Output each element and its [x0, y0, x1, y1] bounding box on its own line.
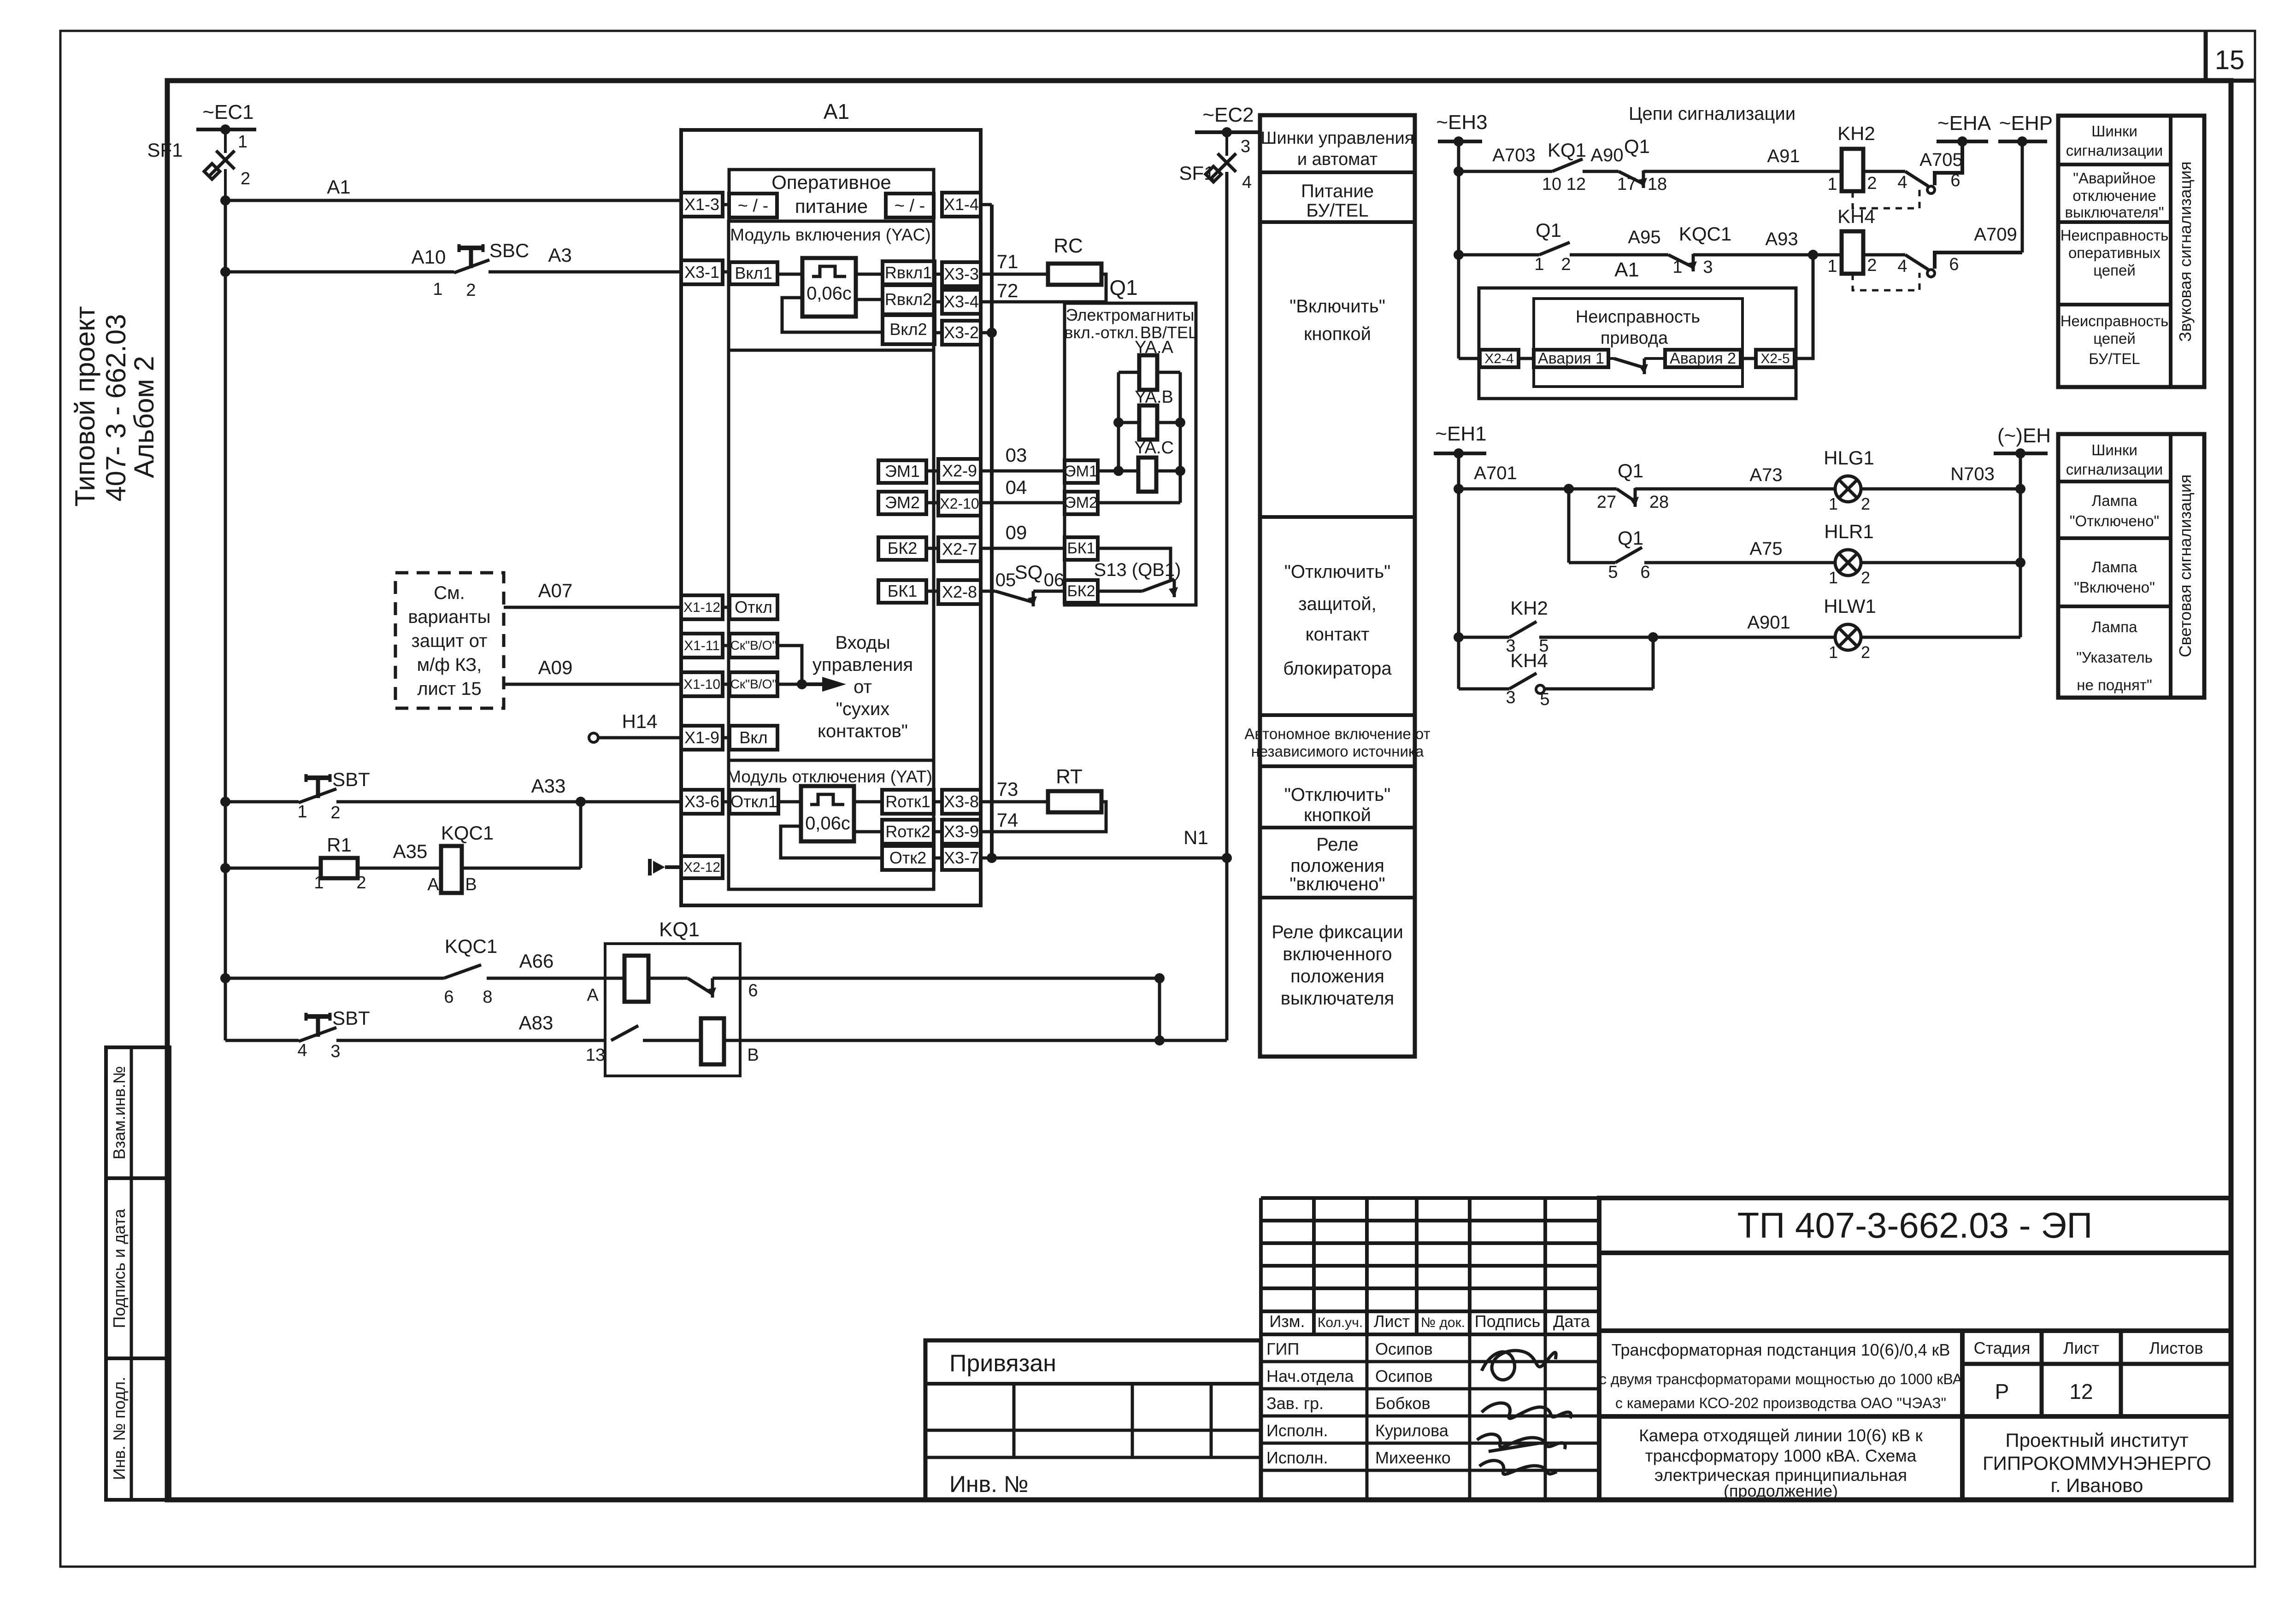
contact Q1 (pins 5,6) [1608, 527, 1835, 582]
svg-text:Шинки управления: Шинки управления [1261, 129, 1414, 148]
svg-text:блокиратора: блокиратора [1283, 658, 1392, 679]
svg-text:БУ/TEL: БУ/TEL [2089, 350, 2140, 367]
output box Rвкл2 [856, 285, 935, 314]
svg-text:~EHA: ~EHA [1937, 112, 1991, 135]
svg-text:13: 13 [586, 1045, 605, 1065]
svg-text:Электромагниты: Электромагниты [1066, 305, 1195, 324]
svg-text:KQC1: KQC1 [445, 935, 497, 957]
legend Реле фиксации [1272, 922, 1403, 1009]
svg-text:Листов: Листов [2149, 1339, 2203, 1357]
signal box Авария 2 [1665, 350, 1741, 367]
svg-text:4: 4 [297, 1041, 307, 1060]
terminal X3-9 [934, 820, 981, 844]
svg-text:"Указатель: "Указатель [2076, 649, 2153, 666]
svg-text:X1-4: X1-4 [944, 195, 979, 214]
wire 09 [981, 522, 1065, 548]
svg-text:KQ1: KQ1 [1548, 139, 1586, 161]
svg-text:Нач.отдела: Нач.отдела [1266, 1367, 1354, 1386]
svg-text:H14: H14 [622, 711, 657, 732]
svg-text:0,06с: 0,06с [805, 813, 850, 834]
terminal X2-5 [1741, 255, 1813, 367]
svg-text:Откл: Откл [735, 598, 772, 617]
svg-text:~EH3: ~EH3 [1436, 111, 1487, 134]
wire 73 [981, 778, 1048, 802]
svg-text:X1-3: X1-3 [684, 195, 719, 214]
terminal X2-7 [938, 537, 981, 561]
wire A701 [1459, 463, 1617, 494]
svg-text:Изм.: Изм. [1269, 1312, 1305, 1331]
svg-text:Михеенко: Михеенко [1375, 1448, 1451, 1467]
svg-text:Ск"В/О": Ск"В/О" [730, 638, 777, 652]
title block signature grid [1261, 1334, 1599, 1500]
wire A66 [519, 950, 554, 972]
left supply rail [224, 200, 227, 1040]
svg-text:Инв. № подл.: Инв. № подл. [110, 1377, 129, 1480]
title block object description cell [1599, 1331, 1963, 1416]
svg-text:с двумя трансформаторами мощно: с двумя трансформаторами мощностью до 10… [1599, 1371, 1963, 1387]
audio signal legend table [2058, 116, 2204, 387]
pulse timer 0,06с (YAT) [778, 786, 854, 841]
svg-text:Вкл1: Вкл1 [735, 264, 772, 282]
Q1 side box БК1 [1065, 537, 1171, 580]
svg-text:A1: A1 [1614, 258, 1639, 281]
svg-text:27: 27 [1597, 493, 1616, 512]
svg-text:сигнализации: сигнализации [2066, 461, 2163, 478]
vertical return conductor EC2-N1 [1160, 172, 1227, 1040]
contact KQC1 (pins 1,3) [1668, 223, 1842, 277]
svg-text:1: 1 [314, 873, 324, 893]
svg-text:4: 4 [1242, 173, 1252, 192]
svg-text:2: 2 [1861, 568, 1870, 587]
contact Q1 (pins 1,2) [1534, 219, 1668, 274]
legend Шинки управления и автомат [1261, 129, 1414, 169]
svg-text:RC: RC [1054, 235, 1083, 257]
wire A1 [225, 176, 681, 200]
terminal X3-8 [934, 790, 981, 814]
svg-text:защит от: защит от [412, 631, 488, 651]
svg-text:X3-2: X3-2 [944, 323, 979, 342]
svg-text:Неисправность: Неисправность [2061, 227, 2169, 244]
terminal X3-6 [681, 790, 723, 814]
svg-text:"Включить": "Включить" [1289, 296, 1385, 317]
svg-text:SBC: SBC [489, 240, 529, 261]
svg-text:X1-9: X1-9 [684, 728, 719, 747]
svg-text:2: 2 [1561, 255, 1571, 274]
lamp return rail [2015, 453, 2025, 637]
svg-text:X2-12: X2-12 [683, 860, 720, 875]
svg-text:A: A [427, 875, 439, 894]
svg-text:трансформатору 1000 кВА. Схема: трансформатору 1000 кВА. Схема [1645, 1446, 1917, 1465]
svg-text:72: 72 [997, 280, 1018, 301]
svg-text:15: 15 [2215, 45, 2245, 75]
limit switch SQ (pins 05,06) [981, 561, 1065, 606]
svg-text:Лист: Лист [2063, 1339, 2099, 1357]
svg-text:"Включено": "Включено" [2074, 579, 2155, 596]
svg-text:ГИПРОКОММУНЭНЕРГО: ГИПРОКОММУНЭНЕРГО [1983, 1452, 2211, 1474]
svg-text:Отк2: Отк2 [889, 848, 926, 867]
terminal X1-9 [681, 726, 723, 750]
svg-text:04: 04 [1006, 476, 1027, 498]
wire A75 [1749, 539, 1782, 559]
svg-text:A35: A35 [393, 840, 428, 862]
wire A901 [1747, 612, 1790, 633]
terminal X2-9 [938, 459, 981, 483]
title block institute cell [1962, 1416, 2231, 1500]
internal box БК2 [878, 537, 938, 560]
svg-text:г. Иваново: г. Иваново [2051, 1474, 2143, 1496]
svg-text:2: 2 [356, 873, 366, 893]
terminal X1-4 [942, 193, 981, 217]
svg-text:2: 2 [1867, 256, 1877, 275]
svg-text:5: 5 [1540, 690, 1549, 709]
svg-text:A73: A73 [1749, 465, 1782, 485]
svg-text:28: 28 [1649, 493, 1669, 512]
terminal H14 [589, 711, 681, 742]
svg-text:X3-6: X3-6 [684, 792, 719, 811]
svg-text:2: 2 [1861, 494, 1870, 513]
svg-text:Q1: Q1 [1618, 460, 1643, 482]
svg-text:~ / -: ~ / - [895, 196, 925, 216]
svg-text:кнопкой: кнопкой [1304, 324, 1371, 344]
svg-text:оперативных: оперативных [2068, 244, 2161, 261]
terminal X3-1 [681, 260, 723, 284]
svg-text:5: 5 [1608, 563, 1618, 582]
svg-text:Ск"В/О": Ск"В/О" [730, 677, 777, 691]
svg-text:БУ/TEL: БУ/TEL [1306, 200, 1368, 221]
svg-text:3: 3 [330, 1042, 340, 1061]
svg-text:A1: A1 [824, 100, 849, 123]
svg-text:Откл1: Откл1 [730, 792, 777, 811]
svg-text:БК2: БК2 [1067, 582, 1095, 600]
terminal X2-4 [1459, 350, 1534, 367]
svg-text:3: 3 [1703, 258, 1713, 277]
svg-text:X2-8: X2-8 [942, 582, 977, 601]
svg-text:SBT: SBT [332, 769, 370, 790]
terminal X2-10 [938, 492, 981, 516]
svg-text:A75: A75 [1749, 539, 1782, 559]
svg-text:A701: A701 [1474, 463, 1517, 483]
signal box Авария 1 [1534, 350, 1608, 367]
svg-text:(~)EH: (~)EH [1997, 424, 2051, 447]
svg-text:положения: положения [1290, 856, 1384, 876]
svg-text:Q1: Q1 [1536, 219, 1561, 241]
title block roles [1266, 1339, 1354, 1467]
svg-text:A93: A93 [1765, 229, 1798, 249]
svg-text:контакт: контакт [1306, 624, 1370, 645]
bus (~)EH [1994, 424, 2051, 458]
wire A09 [504, 657, 681, 684]
svg-text:X1-12: X1-12 [683, 600, 720, 615]
lamp HLR1 (pins 1,2) [1824, 521, 2020, 587]
contact KQ1 (pins 10,12) [1542, 139, 1619, 194]
fault changeover contact [1608, 358, 1665, 374]
pushbutton SBT trip contact (pins 1,2) [225, 769, 370, 822]
inner column box of A1 [729, 221, 934, 889]
svg-text:Альбом 2: Альбом 2 [129, 356, 159, 478]
title block revision grid [1261, 1198, 1599, 1334]
svg-text:S13 (QB1): S13 (QB1) [1094, 560, 1181, 580]
svg-text:1: 1 [1827, 257, 1837, 276]
sidebar box Инв.№ подл. [106, 1358, 170, 1500]
device A1 outer box [681, 100, 981, 905]
svg-text:05: 05 [995, 570, 1016, 590]
svg-text:SQ: SQ [1015, 561, 1043, 583]
sidebar box Взам.инв.№ [106, 1047, 170, 1178]
svg-text:RT: RT [1056, 765, 1083, 788]
svg-text:4: 4 [1897, 173, 1907, 192]
svg-text:0,06с: 0,06с [807, 283, 852, 304]
svg-text:1: 1 [1829, 494, 1838, 513]
legend Шинки сигнализации (audio) [2066, 123, 2163, 159]
contact KQC1 (pins 6,8) [225, 935, 605, 1007]
svg-text:положения: положения [1290, 966, 1384, 987]
svg-text:06: 06 [1044, 570, 1065, 590]
svg-text:A703: A703 [1492, 145, 1535, 165]
input box Вкл (X1-9) [723, 726, 777, 750]
svg-text:Вкл: Вкл [739, 728, 767, 747]
svg-text:управления: управления [812, 655, 913, 675]
svg-text:HLW1: HLW1 [1824, 595, 1876, 617]
output box Вкл2 [883, 315, 935, 344]
svg-text:X2-10: X2-10 [940, 495, 979, 512]
svg-text:Привязан: Привязан [949, 1350, 1056, 1377]
pushbutton SBC (pins 1,2) [433, 240, 529, 300]
svg-text:Питание: Питание [1301, 181, 1374, 201]
svg-text:A09: A09 [538, 657, 573, 678]
wire A93 [1765, 229, 1818, 260]
svg-text:03: 03 [1006, 444, 1027, 466]
svg-text:HLR1: HLR1 [1824, 521, 1873, 542]
svg-text:8: 8 [483, 987, 492, 1007]
svg-text:(продолжение): (продолжение) [1724, 1481, 1838, 1500]
Q1 side box БК2 [1065, 560, 1181, 603]
title block stage-sheet header [1962, 1331, 2231, 1364]
svg-text:и автомат: и автомат [1297, 150, 1378, 169]
svg-text:сигнализации: сигнализации [2066, 142, 2163, 159]
bus ~EHP [1998, 112, 2053, 147]
contact KH2 (pins 3,5) [1459, 597, 1835, 656]
lamp HLG1 (pins 1,2) [1824, 447, 2025, 513]
internal box ЭМ1 [878, 460, 938, 483]
wire 71 [981, 251, 1048, 274]
legend Лампа Отключено [2070, 492, 2159, 529]
bus ~EHA [1919, 112, 1991, 170]
svg-text:Оперативное: Оперативное [771, 171, 891, 193]
svg-text:ЭМ2: ЭМ2 [1065, 494, 1098, 511]
svg-text:Цепи сигнализации: Цепи сигнализации [1629, 104, 1796, 124]
mechanical link KH4 [1853, 273, 1919, 290]
svg-text:A83: A83 [519, 1012, 553, 1034]
svg-text:71: 71 [997, 251, 1018, 272]
terminal X1-12 [681, 595, 723, 619]
svg-text:варианты: варианты [408, 607, 490, 627]
svg-text:цепей: цепей [2093, 262, 2136, 279]
svg-text:Стадия: Стадия [1974, 1339, 2031, 1357]
svg-text:№ док.: № док. [1421, 1315, 1465, 1330]
wire A35 [358, 840, 441, 868]
resistor R1 [225, 834, 366, 893]
YAC feedback wire [782, 298, 883, 332]
legend Шинки сигнализации (light) [2066, 441, 2163, 478]
svg-text:N1: N1 [1183, 827, 1208, 848]
right rail from X1-4 to N1 [987, 205, 997, 863]
svg-text:SF1: SF1 [147, 139, 183, 161]
title block header row [1269, 1312, 1590, 1331]
terminal X3-3 [935, 262, 981, 286]
changeover contact KH2 (pins 4,6) [1897, 141, 1962, 194]
svg-text:A07: A07 [538, 580, 573, 601]
input box Вкл1 [723, 262, 777, 284]
drive fault block A1 [1479, 258, 1796, 399]
input box Откл (X1-12) [723, 595, 777, 619]
module YAC divider [729, 225, 934, 350]
svg-text:Q1: Q1 [1618, 527, 1643, 549]
svg-text:Автономное включение от: Автономное включение от [1244, 725, 1430, 742]
svg-text:Шинки: Шинки [2091, 441, 2137, 458]
legend Лампа Указатель не поднят [2076, 618, 2153, 693]
svg-text:Модуль отключения (YAT): Модуль отключения (YAT) [727, 767, 932, 786]
svg-text:2: 2 [1867, 174, 1877, 193]
legend Автономное включение [1244, 725, 1430, 760]
svg-text:Лампа: Лампа [2092, 492, 2138, 509]
svg-text:N703: N703 [1950, 464, 1995, 484]
svg-text:Лист: Лист [1374, 1312, 1410, 1331]
input box Откл1 [723, 790, 778, 814]
svg-text:Камера отходящей линии 10(6) к: Камера отходящей линии 10(6) кВ к [1639, 1426, 1923, 1445]
legend Неисправность цепей БУ/TEL [2061, 312, 2169, 367]
svg-text:выключателя": выключателя" [2065, 204, 2164, 221]
svg-text:3: 3 [1241, 137, 1250, 156]
svg-text:2: 2 [1861, 643, 1870, 662]
title Цепи сигнализации [1629, 104, 1796, 124]
svg-text:A91: A91 [1767, 146, 1800, 166]
svg-text:Зав. гр.: Зав. гр. [1266, 1394, 1324, 1413]
svg-text:вкл.-откл.: вкл.-откл. [1064, 323, 1138, 342]
light signal legend table [2058, 434, 2204, 698]
coil YA.A [1119, 338, 1180, 390]
svg-text:ГИП: ГИП [1266, 1339, 1299, 1358]
title block names [1375, 1339, 1451, 1467]
svg-text:от: от [854, 677, 872, 697]
svg-text:10: 10 [1542, 175, 1561, 194]
legend Включить кнопкой [1289, 296, 1385, 344]
svg-text:ЭМ1: ЭМ1 [1065, 463, 1098, 480]
wire A90 [1590, 145, 1623, 165]
svg-text:1: 1 [1672, 258, 1682, 277]
coil YA.B [1113, 388, 1185, 440]
title block stage-sheet values [1962, 1364, 2231, 1416]
svg-text:Реле фиксации: Реле фиксации [1272, 922, 1403, 942]
svg-text:X1-10: X1-10 [683, 677, 720, 692]
wire N1 [981, 827, 1232, 863]
svg-text:контактов": контактов" [818, 721, 908, 741]
svg-text:A705: A705 [1919, 150, 1962, 170]
svg-text:A95: A95 [1628, 227, 1660, 247]
svg-text:6: 6 [1640, 563, 1650, 582]
terminal X2-8 [938, 580, 981, 604]
svg-text:Неисправность: Неисправность [2061, 312, 2169, 329]
relay KQ1 box [605, 918, 740, 1076]
svg-text:Инв. №: Инв. № [949, 1471, 1029, 1497]
junction dot A66 row [1154, 973, 1165, 983]
terminal X3-7 [934, 846, 981, 870]
svg-text:6: 6 [1950, 171, 1960, 190]
svg-text:73: 73 [997, 778, 1018, 800]
svg-text:1: 1 [1534, 255, 1544, 274]
legend Неисправность оперативных цепей [2061, 227, 2169, 279]
svg-text:Авария 2: Авария 2 [1670, 350, 1736, 367]
svg-text:независимого источника: независимого источника [1251, 743, 1424, 760]
title block document number cell [1599, 1198, 2231, 1253]
svg-text:407- 3 - 662.03: 407- 3 - 662.03 [100, 314, 131, 502]
svg-text:выключателя: выключателя [1281, 988, 1394, 1009]
svg-text:X2-9: X2-9 [942, 461, 977, 480]
wire A33 [336, 775, 681, 807]
svg-text:1: 1 [297, 802, 307, 822]
wire A73 [1749, 465, 1782, 485]
svg-text:SF1: SF1 [1179, 162, 1214, 184]
svg-text:X3-1: X3-1 [684, 263, 719, 282]
svg-text:Звуковая сигнализация: Звуковая сигнализация [2176, 161, 2195, 342]
input box Ск В/О (X1-10) [723, 672, 777, 696]
relay coil KQC1 (pins A,B) [427, 822, 581, 894]
svg-text:Q1: Q1 [1109, 276, 1137, 300]
terminal X1-11 [681, 634, 723, 658]
pulse timer 0,06с (YAC) [777, 258, 856, 317]
svg-text:18: 18 [1648, 175, 1667, 194]
wire A3 [489, 244, 681, 272]
svg-text:~EC1: ~EC1 [202, 101, 253, 123]
wire row 2 from EH3 [1459, 253, 1539, 257]
svg-text:1: 1 [1829, 568, 1838, 587]
internal box БК1 [878, 580, 938, 603]
input box Ск В/О (X1-11) [723, 634, 777, 658]
breaker Q1 electromagnets box [1064, 276, 1197, 605]
svg-text:ТП 407-3-662.03 - ЭП: ТП 407-3-662.03 - ЭП [1737, 1205, 2093, 1245]
svg-text:ЭМ2: ЭМ2 [885, 493, 920, 512]
svg-text:лист 15: лист 15 [417, 679, 482, 699]
left margin project text [70, 306, 159, 506]
AC/DC box left [729, 194, 777, 217]
relay coil KH2 (pins 1,2) [1827, 123, 1905, 194]
svg-text:X2-5: X2-5 [1760, 351, 1790, 366]
svg-text:"Отключить": "Отключить" [1284, 785, 1391, 805]
svg-text:6: 6 [444, 987, 453, 1007]
note Входы управления от сухих контактов [812, 633, 913, 741]
sheet number box 15 [2206, 31, 2255, 81]
svg-text:X1-11: X1-11 [684, 638, 720, 653]
signal rail EH3 [1454, 141, 1464, 358]
svg-text:Q1: Q1 [1624, 135, 1650, 157]
svg-text:ЭМ1: ЭМ1 [885, 462, 920, 481]
lamp HLW1 (pins 1,2) [1824, 595, 2020, 662]
svg-text:"сухих: "сухих [836, 699, 890, 719]
bus ~EH3 [1436, 111, 1487, 147]
svg-text:не поднят": не поднят" [2077, 676, 2152, 693]
title block drawing name cell [1599, 1416, 1962, 1500]
wire 74 RT return to X3-9 [981, 802, 1106, 832]
terminal X1-3 [681, 193, 723, 217]
svg-text:Вкл2: Вкл2 [889, 320, 927, 339]
KQ1 coil A-6 with contact [587, 956, 1160, 1005]
svg-text:Шинки: Шинки [2091, 123, 2137, 140]
contact Q1 (pins 17,18) [1617, 135, 1842, 194]
svg-text:Кол.уч.: Кол.уч. [1318, 1315, 1363, 1330]
bus ~EC1 [196, 101, 256, 135]
svg-text:Взам.инв.№: Взам.инв.№ [110, 1066, 129, 1159]
sidebar box Подпись и дата [106, 1178, 170, 1358]
svg-text:защитой,: защитой, [1298, 594, 1376, 614]
